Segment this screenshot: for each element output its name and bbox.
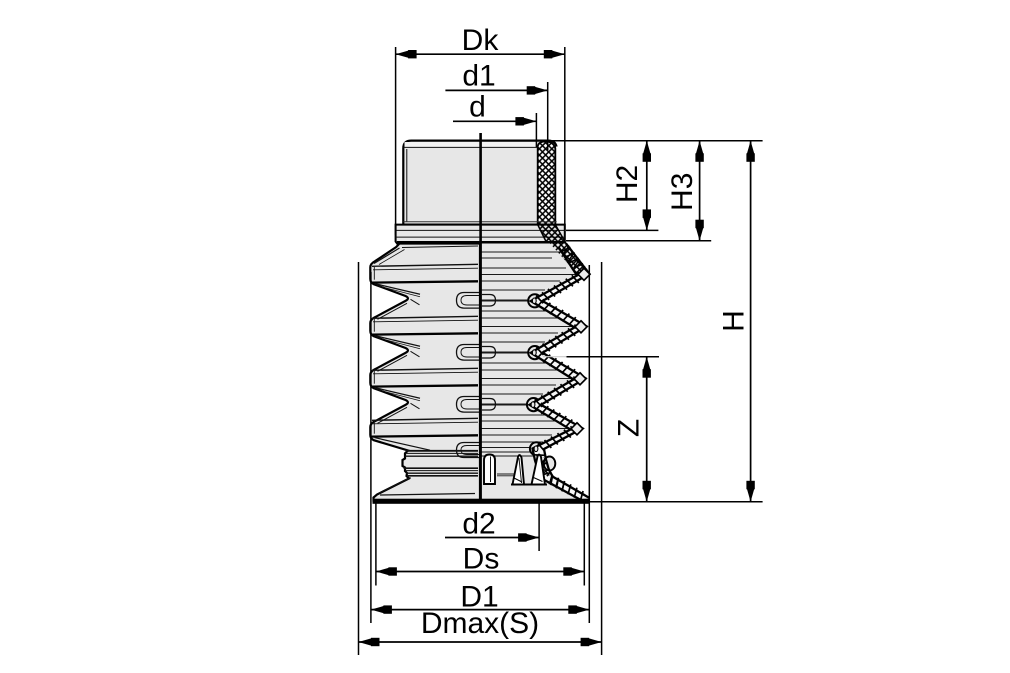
collar flange bbox=[396, 225, 565, 247]
suction lip bottom edge bbox=[373, 499, 590, 504]
svg-text:Dmax(S): Dmax(S) bbox=[421, 607, 539, 640]
H2 bottom extension line bbox=[566, 229, 658, 231]
svg-text:H3: H3 bbox=[666, 173, 699, 211]
neck ring bump bbox=[544, 457, 556, 471]
centerline fold tab right bbox=[482, 399, 496, 411]
band peak knot bbox=[571, 423, 583, 435]
bellows top cone shading bbox=[374, 248, 400, 264]
Z top extension line bbox=[543, 356, 567, 358]
dimension H3 bbox=[699, 141, 701, 241]
Dmax right extension line bbox=[601, 262, 603, 655]
fitting top chamfer line bbox=[404, 146, 537, 148]
centerline fold tab right bbox=[482, 295, 496, 307]
fitting bore bottom line bbox=[403, 224, 556, 226]
centerline fold tab left bbox=[457, 293, 480, 309]
D1 right extension line bbox=[588, 265, 590, 623]
band valley knot bbox=[534, 446, 538, 452]
svg-text:Dk: Dk bbox=[462, 24, 500, 57]
dimension Dmax(S) bbox=[359, 641, 602, 643]
bellows left half (outside view) bbox=[370, 244, 480, 501]
svg-text:H: H bbox=[718, 310, 751, 332]
cleat feet line bbox=[511, 484, 547, 486]
centerline fold tab right bbox=[482, 347, 496, 359]
centerline fold tab left bbox=[457, 345, 480, 361]
fitting white collar strip bbox=[555, 147, 564, 231]
centerline bbox=[479, 133, 482, 501]
fitting thread section hatch bbox=[538, 141, 556, 224]
collar section hatch wedge bbox=[538, 225, 566, 244]
svg-text:Z: Z bbox=[612, 419, 645, 437]
collar line 1 bbox=[396, 229, 565, 231]
Dmax left extension line bbox=[358, 262, 360, 655]
collar line 2 bbox=[396, 236, 565, 238]
band peak knot bbox=[578, 268, 590, 280]
bellows left ridge 1 detail bbox=[371, 264, 478, 319]
band peak knot bbox=[575, 321, 587, 333]
centerline fold tab left bbox=[457, 397, 480, 413]
bellows wall section band bbox=[528, 294, 541, 307]
centerline fold tab left bbox=[457, 443, 480, 458]
fitting body bbox=[403, 141, 556, 225]
svg-text:d: d bbox=[469, 91, 486, 124]
cleat rib 1 bbox=[484, 455, 495, 485]
H3 bottom extension line bbox=[566, 240, 711, 242]
dimension H bbox=[750, 141, 752, 502]
fitting left highlight bbox=[406, 149, 408, 222]
dimension d2 bbox=[538, 503, 540, 551]
dimension D1 bbox=[371, 609, 589, 611]
bellows interior shading lines bbox=[481, 252, 576, 476]
band valley knot bbox=[531, 402, 535, 408]
skirt shading line bbox=[380, 494, 475, 496]
H Z bottom extension line bbox=[589, 501, 763, 503]
bellows left ridge 3 detail bbox=[371, 368, 478, 423]
collar bottom edge bbox=[397, 241, 563, 244]
dimension d bbox=[535, 113, 537, 147]
band peak knot bbox=[574, 373, 586, 385]
cleat rib 2 bbox=[513, 455, 525, 484]
dimension Z bbox=[646, 357, 648, 502]
bellows right half interior (section view) bbox=[480, 244, 589, 501]
D1 left extension line bbox=[370, 272, 372, 623]
dimension Ds bbox=[375, 503, 377, 586]
bellows left ridge 2 detail bbox=[371, 316, 478, 371]
bellows left ridge 4 detail bbox=[371, 418, 478, 450]
band valley knot bbox=[532, 298, 536, 304]
H top extension line bbox=[550, 140, 763, 142]
svg-text:H2: H2 bbox=[611, 165, 644, 203]
dimension H2 bbox=[646, 141, 648, 231]
svg-text:Ds: Ds bbox=[463, 543, 500, 576]
dimension d1 bbox=[547, 82, 549, 150]
neck ring lines bbox=[404, 451, 479, 476]
svg-text:d2: d2 bbox=[462, 508, 495, 541]
dimension Dk bbox=[395, 47, 397, 235]
cleat rib 3 bbox=[532, 455, 546, 485]
svg-text:d1: d1 bbox=[462, 60, 495, 93]
band valley knot bbox=[532, 350, 536, 356]
